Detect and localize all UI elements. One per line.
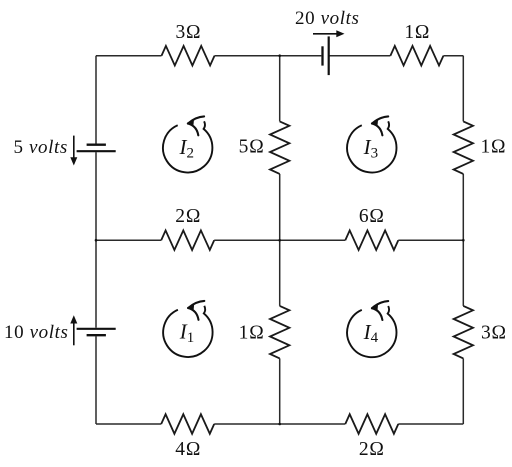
wire left edge upper (corner to 5V battery) (95, 56, 97, 144)
svg-text:2Ω: 2Ω (359, 439, 385, 460)
svg-text:5 volts: 5 volts (14, 137, 68, 158)
resistor 3-ohm (right edge lower) (454, 306, 473, 359)
resistor 4-ohm (bottom left) (161, 414, 214, 434)
battery V3 20 volts (top wire) short plate (321, 46, 323, 65)
resistor 2-ohm (middle row left) (161, 230, 214, 250)
wire middle vertical lower (1-ohm to bottom wire) (279, 358, 281, 424)
wire right edge (middle row to 3-ohm) (462, 240, 464, 306)
svg-text:3Ω: 3Ω (481, 323, 507, 344)
arrow for 5 volts (pointing down) (73, 136, 75, 159)
battery V3 20 volts long plate (328, 36, 330, 75)
resistor 1-ohm (right edge upper) (454, 121, 473, 173)
svg-text:1Ω: 1Ω (239, 323, 265, 344)
resistor 6-ohm (middle row right) (345, 230, 398, 250)
wire top segment (3-ohm to 20V battery) (215, 55, 322, 57)
node left-middle junction (95, 239, 98, 242)
svg-text:1Ω: 1Ω (404, 22, 430, 43)
svg-text:3Ω: 3Ω (175, 22, 201, 43)
svg-text:2Ω: 2Ω (175, 206, 201, 227)
mesh current loop I4 (347, 301, 396, 357)
node top-middle junction (278, 54, 281, 57)
wire top-left segment (top-left corner to 3-ohm) (96, 55, 162, 57)
arrow for 10 volts (pointing up) (73, 323, 75, 346)
svg-text:I2: I2 (179, 135, 195, 161)
battery V1 5 volts long plate (77, 150, 116, 152)
mesh current loop I2 (163, 116, 212, 172)
node bottom-middle junction (278, 423, 281, 426)
battery V2 10 volts (left edge lower) long plate (77, 328, 116, 330)
resistor 1-ohm (top right) (390, 46, 443, 66)
wire middle row centre (2-ohm to 6-ohm) (214, 239, 345, 241)
svg-text:I1: I1 (179, 320, 195, 346)
resistor 2-ohm (bottom right) (345, 414, 398, 434)
resistor 5-ohm (middle vertical upper) (270, 121, 289, 173)
battery V1 5 volts (left edge upper) short plate (87, 144, 106, 146)
svg-text:I3: I3 (363, 135, 379, 161)
svg-text:10 volts: 10 volts (4, 322, 68, 343)
wire bottom right (2-ohm to bottom-right corner) (398, 423, 463, 425)
wire middle vertical (5-ohm to centre node) (279, 174, 281, 240)
wire left edge (5V battery to middle row) (95, 152, 97, 240)
wire left edge (middle row to 10V battery) (95, 240, 97, 328)
mesh current loop I1 (163, 301, 212, 357)
wire right edge upper (corner to 1-ohm) (462, 56, 464, 122)
svg-text:6Ω: 6Ω (359, 206, 385, 227)
wire top segment (20V battery to 1-ohm) (329, 55, 391, 57)
svg-text:20 volts: 20 volts (295, 8, 359, 29)
svg-text:4Ω: 4Ω (175, 439, 201, 460)
svg-text:1Ω: 1Ω (481, 137, 507, 158)
wire middle vertical upper (top wire to 5-ohm) (279, 56, 281, 122)
wire top-right segment (1-ohm to top-right corner) (443, 55, 463, 57)
node right-middle junction (462, 239, 465, 242)
node centre junction (278, 239, 281, 242)
mesh current loop I3 (347, 116, 396, 172)
wire right edge (1-ohm to middle row) (462, 174, 464, 240)
arrow for 20 volts (pointing right) (313, 33, 337, 35)
resistor 3-ohm (top left) (162, 46, 215, 66)
wire left edge lower (10V battery to bottom-left corner) (95, 336, 97, 424)
wire bottom left (corner to 4-ohm) (96, 423, 161, 425)
svg-text:5Ω: 5Ω (239, 137, 265, 158)
battery V2 10 volts short plate (87, 334, 106, 336)
wire middle vertical (centre node to 1-ohm) (279, 240, 281, 306)
wire middle row right (6-ohm to right edge) (398, 239, 463, 241)
svg-text:I4: I4 (363, 320, 379, 346)
resistor 1-ohm (middle vertical lower) (270, 306, 289, 359)
wire bottom centre (4-ohm to 2-ohm) (214, 423, 345, 425)
wire middle row left (left edge to 2-ohm) (96, 239, 161, 241)
wire right edge lower (3-ohm to bottom-right corner) (462, 358, 464, 424)
